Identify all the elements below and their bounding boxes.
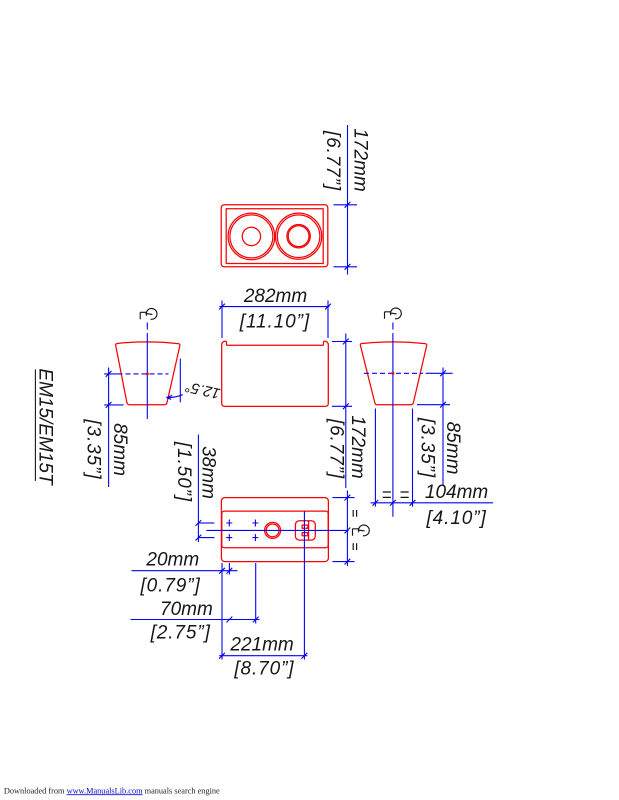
svg-text:[6.77”]: [6.77”] — [322, 130, 343, 191]
dim 85mm right: extension line bottom — [417, 404, 450, 406]
bottom view right dim: centerline symbol — [353, 525, 370, 536]
dim 70mm: extension line hole col 2 — [255, 563, 257, 624]
bottom view right dim: equal mark lower — [353, 543, 356, 550]
dim 104mm: tick left — [373, 500, 379, 506]
right side view: centerline symbol — [385, 308, 402, 319]
dim 104mm: extension line left — [374, 409, 376, 507]
bottom view: connector terminal upper — [302, 525, 308, 528]
right side view: horizontal centerline (dashed) — [364, 372, 423, 374]
dim 221mm: tick left — [219, 653, 225, 659]
dim 172mm (front view height): tick top — [343, 339, 349, 345]
dim 12.5 degrees: vertical reference extension line — [179, 359, 181, 403]
top view: left woofer outer rim — [228, 213, 275, 260]
svg-text:172mm: 172mm — [350, 128, 371, 191]
top view: right driver outer rim — [276, 213, 322, 259]
dim 172mm (top view height): dimension line — [347, 125, 349, 275]
dim 172mm (top view height): tick bottom — [345, 264, 351, 270]
svg-text:[8.70”]: [8.70”] — [233, 659, 294, 680]
bottom view: middle band outline — [222, 511, 328, 548]
dim 104mm: tick center — [390, 500, 396, 506]
top view: outer cabinet outline — [221, 205, 328, 267]
svg-text:[0.79”]: [0.79”] — [140, 576, 201, 597]
svg-text:282mm: 282mm — [243, 286, 307, 307]
bottom view right dim: extension line top — [333, 497, 355, 499]
dim 85mm left: tick top — [106, 371, 112, 377]
dim 85mm right: extension line top — [426, 372, 453, 374]
dim 172mm (top view height): tick top — [345, 202, 351, 208]
dim 85mm right: dimension line — [442, 368, 444, 487]
dim 20mm: tick right — [227, 568, 233, 574]
left side view: horizontal centerline (dashed) — [126, 373, 169, 375]
title EM15/EM15T underline — [34, 369, 36, 481]
svg-text:[2.75”]: [2.75”] — [150, 623, 211, 644]
svg-text:[6.77”]: [6.77”] — [326, 418, 347, 479]
bottom view: horizontal centerline — [206, 529, 348, 531]
svg-text:[1.50”]: [1.50”] — [173, 441, 194, 502]
dim 85mm right: tick top — [440, 370, 446, 376]
dim 172mm (front view height): extension line top — [332, 341, 352, 343]
bottom view right dim: extension line bottom — [333, 561, 355, 563]
dim 85mm left: extension line bottom — [104, 404, 123, 406]
dim 282mm (width): tick left — [219, 304, 225, 310]
dim 104mm: dimension line — [371, 502, 493, 504]
right side view: center dot — [391, 372, 394, 375]
front view: cabinet outline with top recess — [222, 341, 329, 406]
svg-text:221mm: 221mm — [229, 635, 293, 656]
dim 104mm: extension line right — [412, 409, 414, 507]
dim 12.5 degrees: arrowhead — [166, 395, 172, 399]
top view: inner baffle outline — [226, 209, 323, 264]
svg-text:[3.35”]: [3.35”] — [82, 418, 103, 479]
bottom view: mounting hole cross 2 — [252, 520, 258, 527]
svg-text:EM15/EM15T: EM15/EM15T — [35, 368, 56, 486]
dim 20mm: dimension line — [132, 570, 238, 572]
dim 221mm: dimension line — [219, 655, 307, 657]
dim 172mm (top view height): extension line top — [334, 204, 358, 206]
dim 104mm: equal marks — [383, 492, 409, 497]
bottom view right dim: equal mark upper — [353, 510, 356, 517]
dim 12.5 degrees: arc — [167, 395, 183, 398]
top view: left woofer inner rim — [230, 215, 273, 258]
dim 38mm: extension line upper row — [199, 522, 214, 524]
dim 282mm (width): dimension line — [219, 306, 329, 308]
left side view: outline — [116, 342, 180, 405]
bottom view: mounting hole cross 1 — [226, 520, 232, 527]
dim 221mm: tick right — [302, 653, 308, 659]
top view: right driver horn inner — [288, 226, 309, 247]
svg-text:70mm: 70mm — [160, 599, 213, 620]
dim 38mm: extension line lower row — [198, 537, 214, 539]
bottom view right dim: tick middle — [345, 528, 351, 534]
bottom view: connector vertical centerline / 221 extension — [303, 511, 305, 659]
left side view: vertical centerline — [146, 333, 148, 419]
dim 282mm (width): extension line left — [221, 301, 223, 339]
bottom view: socket hole inner — [266, 524, 279, 537]
dim 282mm (width): tick right — [325, 304, 331, 310]
right side view: vertical centerline — [392, 333, 394, 517]
dim 282mm (width): extension line right — [327, 301, 329, 339]
dim 38mm: tick top — [196, 520, 202, 526]
top view: left woofer dust cap — [242, 227, 260, 245]
dim 172mm (front view height): dimension line — [345, 334, 347, 489]
svg-text:[4.10”]: [4.10”] — [426, 508, 487, 529]
dim 172mm (top view height): extension line bottom — [334, 266, 358, 268]
svg-text:85mm: 85mm — [442, 422, 463, 475]
bottom view: mounting hole cross 4 — [252, 534, 258, 541]
right side view: outline — [360, 342, 426, 405]
svg-text:12.5°: 12.5° — [184, 378, 222, 402]
bottom view: mounting hole cross 3 — [226, 534, 232, 541]
dim 20mm: tick left — [219, 568, 225, 574]
dim 70mm: tick right — [253, 617, 259, 623]
dim 20mm: extension line left edge (shared with 221mm) — [221, 563, 223, 660]
right side view: vertical centerline upper segment — [392, 323, 394, 330]
dim 172mm (front view height): tick bottom — [343, 403, 349, 409]
dim 70mm: dimension line — [131, 619, 260, 621]
bottom view: outer outline — [221, 498, 328, 562]
dim 85mm right: tick bottom — [440, 402, 446, 408]
left side view: centerline symbol — [140, 309, 157, 320]
dim 70mm: tick left — [227, 617, 233, 623]
bottom view right dim: tick top — [345, 495, 351, 501]
bottom view: connector body — [295, 521, 315, 540]
svg-text:104mm: 104mm — [425, 482, 488, 503]
bottom view right dim: dimension line — [346, 491, 348, 567]
dim 85mm left: tick bottom — [106, 402, 112, 408]
left side view: vertical centerline upper segment — [146, 323, 148, 330]
svg-text:[11.10”]: [11.10”] — [239, 311, 310, 332]
bottom view: connector terminal lower — [302, 533, 308, 536]
svg-text:85mm: 85mm — [109, 423, 130, 476]
top view: right driver horn outer — [287, 225, 310, 248]
left side view: center dot — [146, 372, 149, 375]
top view: right driver inner rim — [277, 215, 320, 258]
dim 38mm: dimension line — [197, 435, 199, 543]
svg-text:172mm: 172mm — [347, 415, 368, 478]
dim 38mm: tick bottom — [196, 535, 202, 541]
dim 85mm left: dimension line — [108, 368, 110, 488]
svg-text:20mm: 20mm — [145, 549, 199, 570]
dim 172mm (front view height): extension line bottom — [332, 405, 352, 407]
bottom view: socket hole outer — [265, 522, 281, 538]
svg-text:[3.35”]: [3.35”] — [417, 417, 438, 478]
dim 104mm: tick right — [410, 500, 416, 506]
bottom view: connector divider — [308, 521, 310, 540]
svg-text:Downloaded from www.ManualsLib: Downloaded from www.ManualsLib.com manua… — [4, 786, 220, 795]
dim 20mm: extension line hole col 1 — [228, 563, 230, 575]
svg-text:38mm: 38mm — [197, 446, 218, 499]
bottom view right dim: tick bottom — [345, 559, 351, 565]
dim 85mm left: extension line top — [104, 373, 122, 375]
